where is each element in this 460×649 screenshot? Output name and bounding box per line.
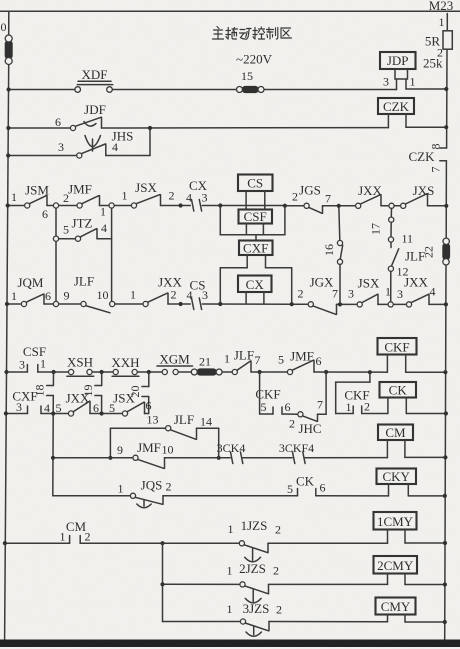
node JTZ branch terminal [53,236,58,241]
node row3/vertical16 [337,204,341,208]
contact JDF [55,102,106,131]
node row4/left-bus [5,302,9,306]
wire vertical V1 [55,208,57,301]
fuse 22 on right bus [422,238,450,265]
contact CS 4-3 (capacitor style) [187,278,209,310]
node 2CMY/right-bus [443,582,447,586]
node terminal vertical-JLF/row4 [388,302,393,307]
coil CXF [239,241,273,268]
bottom border bar [0,640,460,648]
node row7/vertical-A [51,456,55,460]
resistor 5R 25k [423,15,452,71]
left bus [5,11,9,640]
node row6/left-bus [4,411,8,415]
node CM/right-bus [443,455,447,459]
contact JLF 9-10 (NC) [64,274,111,313]
contact 18 on vertical A [33,372,54,414]
node row3 junction [179,203,183,207]
node C (terminal on vertical 17/JLF) [389,203,394,208]
JQS row wire [53,495,389,497]
contact JMF 9-10 (NC) row7 [117,440,174,468]
relay coil CK [380,382,446,414]
node B (terminal on vertical V2) [109,203,114,208]
contact 20 on vertical C [128,372,149,414]
button XSH [67,355,94,377]
node row4/CX-link [218,302,222,306]
node 2JZS-row/vertical-CMY [160,582,164,586]
node row5/vertical-F [324,370,328,374]
node row5/vertical-G [368,370,372,374]
relay coil JDP [380,52,416,79]
contact JXX 1-2 row4 [130,275,183,307]
node terminal V1/row4 [53,301,58,306]
contact JXX 5-6 row6 [56,391,100,417]
contact JSX 3-1 row4 [348,276,391,308]
node row5/right-bus [443,370,447,374]
branch contact JLF 13-14 [110,412,218,458]
contact JQM 1-6 [11,275,51,307]
node CKY/right-bus [443,494,447,498]
coil CX [238,276,272,305]
node row2/left-bus [6,126,10,130]
node row4 right of CX coil [290,302,294,306]
pin 1 of JDP [406,75,446,90]
node JDP/right-bus [444,87,448,91]
wire vertical to 2JZS/3JZS rows [162,543,164,621]
node row3 junction left of CS coil [218,203,222,207]
contact JGX 2-7 (NC) [298,275,339,315]
contact JSX 5-6 row6 [109,391,152,417]
3JZS row wire [163,621,388,623]
row4 wire [7,303,446,305]
branch CKF 1-2 / coil CK [336,372,388,414]
contact CX 4-3 (capacitor style) [186,178,208,211]
branch CKF 5-6 / JHC [255,372,297,414]
node CMY/right-bus [443,620,447,624]
row5 wire [7,371,446,373]
coil CSF [239,209,273,235]
node JLF-branch/row7 left [108,456,112,460]
contact JGS 2-7 [292,183,331,214]
contact 3JZS 1-2 (time delay) [227,601,283,636]
node row5/vertical-B [100,370,104,374]
button XXH [111,355,139,376]
contact CSF 3-1 [19,344,46,372]
node terminal V2/row4 [110,301,115,306]
row7 wire [53,457,387,459]
contact 1JZS 1-2 (time delay) [228,518,282,562]
wire CXF bottom link to row4 [220,268,291,305]
node CK/right-bus [444,411,448,415]
top border line [0,10,460,12]
row1 wire (220V line) [9,89,397,91]
button XGM [157,352,193,375]
pin 3 of JDP [383,75,397,90]
contact CXF 3-4 [12,389,50,416]
node row3/left-bus [6,203,10,207]
node A (terminal on vertical V1) [53,203,58,208]
contact 3CKF4 (capacitor style) [279,441,314,464]
contact 2JZS 1-2 (time delay) [227,561,280,603]
button XDF [75,67,113,92]
fuse 21 [191,355,222,376]
node row9/vertical-CMY [160,541,164,545]
node JHS/left-bus [6,153,10,157]
node row4 junction left [179,302,183,306]
relay coil CKF [378,338,417,372]
row6 wire [6,413,149,415]
relay coil CZK [378,98,446,128]
contact JSX (1-2) row3 [122,180,175,208]
fuse 15 [237,86,265,92]
row3 wire [8,205,447,207]
node row3/right-bus [444,204,448,208]
relay coil CMY [376,598,445,623]
row9 (CM contact) wire [5,542,388,544]
node row5/vertical-C [147,370,151,374]
node CZK/right-bus [444,125,448,129]
node row3 junction right of CS coil [283,204,287,208]
contact CM 1-2 [60,519,91,544]
contact 17 and JLF 11-12 (vertical) [369,208,426,301]
2JZS row wire [163,583,388,585]
right bus [445,14,448,641]
contact CK 5-6 [287,474,326,497]
node row5/vertical-A [52,370,56,374]
relay coil CKY [377,469,445,496]
relay coil 1CMY [374,512,446,543]
contact CZK 8-7 on right bus [409,144,447,173]
node row5/vertical-E [258,370,262,374]
contact JMF (2-1) [63,182,106,219]
contact JXX row3 [356,183,383,208]
contact JHS [58,129,133,159]
contact 16 (vertical) [322,208,343,302]
node row9/left-bus [3,541,7,545]
node JLF-branch/row7 right [217,456,221,460]
contact JTZ 5-4 [59,216,112,242]
contact JQS 1-2 (mushroom) [118,478,172,508]
wire JHS branch [8,128,150,156]
node row4/vertical16 [338,302,342,306]
contact JMF 5-6 row5 [278,349,322,375]
node 1CMY/right-bus [443,541,447,545]
node row5/left-bus [4,370,8,374]
contact JXS [401,183,435,208]
wire vertical V2 [111,208,113,301]
relay coil 2CMY [374,556,445,585]
title 主拖动控制区 (hand-drawn glyphs) [213,27,292,40]
contact JHC 2-7 [289,372,326,436]
coil CS [238,175,273,210]
node row4/right-bus [444,302,448,306]
contact 3CK4 (capacitor style) [217,441,246,464]
contact JSM [11,183,49,222]
wire vertical A (row6 to JQS row) [52,414,54,496]
node row6/vertical-B [100,411,104,415]
contact 19 on vertical B [81,372,102,414]
contact JXX 3-4 row4 [397,275,436,308]
node row6/vertical-A [51,411,55,415]
fuse 0 (top left) [1,20,13,65]
contact JLF 1-7 row5 [224,348,261,375]
row2 wire [8,127,388,129]
node row1/left-bus [7,87,11,91]
node JHS/row2 [148,126,152,130]
wire CSF bottom link to row3 [220,206,285,241]
relay coil CM [378,425,445,458]
